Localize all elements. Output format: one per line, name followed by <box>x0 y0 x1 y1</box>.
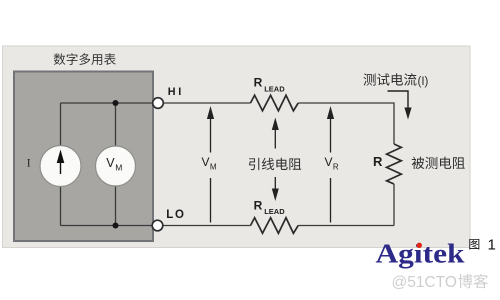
svg-text:V: V <box>202 155 210 169</box>
label: test current (测试电流(I)) <box>364 73 429 88</box>
svg-text:R: R <box>373 154 383 169</box>
svg-text:V: V <box>325 155 333 169</box>
label: digital multimeter (数字多用表) <box>54 53 116 65</box>
svg-text:M: M <box>115 163 122 173</box>
wire: box left vertical <box>60 103 62 226</box>
svg-text:LEAD: LEAD <box>264 84 285 93</box>
Agitek logo <box>376 239 465 269</box>
wire: right vertical below resistor <box>393 184 395 226</box>
wire: meter branch vertical <box>115 103 117 226</box>
watermark @51CTO博客 <box>392 274 488 291</box>
svg-text:1: 1 <box>488 237 496 254</box>
svg-text:(I): (I) <box>418 76 429 88</box>
svg-text:I: I <box>27 158 31 170</box>
annotation arrow VM (voltage across meter) <box>202 106 217 223</box>
voltmeter VM <box>96 146 136 186</box>
svg-text:R: R <box>254 75 263 89</box>
svg-text:HI: HI <box>168 86 184 98</box>
svg-text:@51CTO: @51CTO <box>392 274 457 291</box>
node: bottom junction <box>113 223 119 229</box>
resistor R (device under test) <box>373 144 401 184</box>
label: lead resistance (引线电阻) with arrows <box>249 118 301 202</box>
wire: bottom rail right segment <box>298 225 394 227</box>
resistor RLEAD top <box>251 75 299 110</box>
svg-text:R: R <box>333 163 339 172</box>
wire: bottom rail left segment <box>61 225 251 227</box>
annotation arrow: test current direction <box>388 91 412 120</box>
svg-text:V: V <box>106 156 115 170</box>
svg-text:LEAD: LEAD <box>264 207 285 216</box>
multimeter box <box>14 72 153 242</box>
svg-text:M: M <box>210 163 217 172</box>
annotation arrow VR (voltage across R) <box>325 106 339 223</box>
terminal HI <box>153 86 184 108</box>
resistor RLEAD bottom <box>251 199 299 234</box>
svg-text:R: R <box>254 199 263 213</box>
wire: top rail left segment <box>61 102 251 104</box>
label: measured resistance (被测电阻) <box>412 157 465 169</box>
svg-text:LO: LO <box>166 209 186 221</box>
terminal LO <box>152 209 186 231</box>
label: figure number (图 1) <box>469 237 496 254</box>
panel background <box>3 46 471 248</box>
wire: top rail right segment with corner down <box>298 103 394 144</box>
current source I <box>40 146 81 187</box>
node: top junction <box>113 100 119 106</box>
